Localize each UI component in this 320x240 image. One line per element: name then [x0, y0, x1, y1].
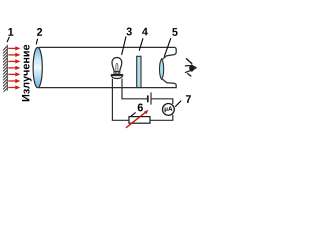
label 5: [164, 28, 177, 57]
objective lens 2: [33, 47, 42, 87]
battery: short (negative) plate: [147, 95, 149, 102]
wire: top circuit wire to battery: [121, 98, 147, 100]
microammeter 7: [163, 104, 175, 116]
lower lid: [185, 68, 197, 73]
rheostat 6: red arrow: [126, 112, 146, 128]
filter plate 4: [137, 56, 141, 87]
lamp 3: filament: [116, 63, 118, 71]
label 6: [131, 104, 143, 117]
tube body (lower outline): [39, 79, 176, 88]
rheostat 6: body: [129, 117, 150, 124]
battery: long (positive) plate: [150, 92, 152, 104]
wire: left lamp lead down to bottom wire: [111, 79, 113, 121]
upper lid: [185, 66, 197, 68]
tube body (upper outline): [39, 47, 176, 59]
label 1: [7, 28, 13, 42]
wire: battery to ammeter: [152, 99, 173, 104]
lamp 3: holder cap: [111, 74, 124, 76]
eyepiece lens 5: [160, 59, 164, 80]
radiation source wall (hatched): [3, 45, 7, 92]
pupil: [189, 65, 194, 72]
wire: bottom wire rheostat to left lead: [112, 119, 130, 121]
label 2: [36, 28, 42, 44]
wire: right lamp lead down: [121, 79, 123, 99]
label 7: [175, 95, 191, 106]
lamp 3: screw base: [114, 72, 120, 75]
wire: ammeter down to bottom wire: [151, 115, 173, 121]
label 4: [139, 28, 148, 51]
lamp 3: bulb glass: [112, 58, 122, 72]
lower lash: [187, 73, 191, 76]
label 3: [122, 28, 132, 56]
radiation arrows (red): [8, 46, 20, 89]
eye (observer): [185, 58, 197, 76]
label: Излучение (vertical): [22, 45, 32, 101]
eyebrow: [186, 58, 192, 63]
